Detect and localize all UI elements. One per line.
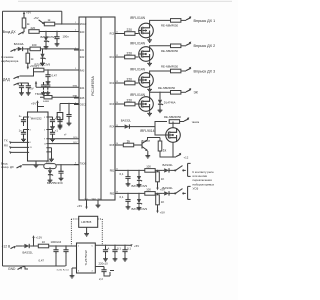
svg-text:T0CKI: T0CKI: [80, 163, 87, 165]
svg-text:1+: 1+: [19, 129, 23, 133]
svg-text:Впрыск ДХ 3: Впрыск ДХ 3: [194, 69, 216, 73]
ground ch4: [147, 111, 152, 116]
svg-text:BAS32L: BAS32L: [14, 42, 25, 46]
svg-text:15: 15: [116, 125, 118, 127]
+5V arrow input A: [156, 182, 165, 192]
svg-text:GND: GND: [8, 267, 16, 271]
resistor R 1k MCLR: [44, 18, 54, 26]
capacitor C out 0,1 a: [112, 246, 121, 261]
diode VD BAS32L: [121, 119, 132, 129]
capacitor C filter a: [19, 83, 24, 95]
svg-text:BZV55C3V9: BZV55C3V9: [132, 184, 148, 188]
svg-text:RX: RX: [4, 143, 8, 147]
svg-text:1K: 1K: [161, 177, 165, 181]
capacitor C4 charge pump: [48, 129, 58, 142]
resistor R 1k carb pullup: [26, 53, 34, 63]
svg-text:RE-N8MF050: RE-N8MF050: [161, 49, 179, 53]
svg-text:5: 5: [44, 129, 45, 131]
svg-text:RA4: RA4: [80, 87, 85, 90]
svg-text:BZV55C5V1: BZV55C5V1: [41, 35, 57, 39]
wire carb junction: [24, 48, 30, 50]
capacitor C supply 2: [45, 82, 50, 95]
resistor R 100 input A: [145, 165, 155, 173]
wire MAX232 to PIC rx tx: [48, 139, 79, 144]
wire carb to RA1: [28, 49, 79, 53]
svg-text:8: 8: [30, 142, 31, 144]
node carb text: [1, 55, 19, 63]
svg-text:11: 11: [116, 32, 118, 34]
scan artifact top line: [18, 0, 232, 2]
svg-text:IRFL014N: IRFL014N: [130, 41, 146, 45]
svg-text:RA2: RA2: [80, 56, 85, 59]
svg-text:ФКМ: ФКМ: [73, 85, 78, 88]
wire +5V output rail: [95, 245, 128, 248]
wire drain ch1: [135, 20, 170, 33]
ground reg: [70, 274, 75, 279]
svg-text:RB2: RB2: [110, 193, 115, 195]
svg-text:синхр. ДХ: синхр. ДХ: [1, 165, 14, 169]
resistor R gate ch3 220: [125, 77, 135, 84]
svg-text:RA3: RA3: [80, 69, 85, 72]
arrow rs232 a: [4, 138, 12, 144]
svg-text:Т6000: Т6000: [35, 92, 43, 96]
resistor R 220 hall: [29, 26, 39, 34]
zener VD BZV55C sync: [48, 169, 54, 183]
svg-text:100: 100: [146, 188, 151, 192]
svg-text:13: 13: [116, 81, 118, 83]
capacitor C 1000x16: [51, 240, 62, 266]
svg-text:220: 220: [31, 26, 36, 30]
transistor VT6 BC847: [134, 139, 151, 151]
svg-text:10: 10: [42, 240, 46, 244]
wire top route to MCLR: [3, 11, 62, 24]
wire diode to res: [31, 242, 39, 247]
svg-text:MCLR: MCLR: [80, 24, 87, 26]
resistor R gate ch2 220: [125, 51, 135, 59]
svg-text:RC2: RC2: [110, 83, 115, 85]
resistor R out ch2 NSMF050: [161, 44, 181, 53]
capacitor C5 vcc: [56, 117, 63, 129]
wire vcc MAX232: [38, 107, 45, 113]
ground ch1: [147, 38, 152, 43]
ground LM7805: [84, 227, 89, 236]
wire + arrow out ch1: [181, 16, 215, 23]
svg-text:0,1: 0,1: [127, 246, 131, 250]
wire left ground bus: [2, 11, 4, 266]
svg-text:+12: +12: [184, 155, 189, 159]
arrow reset input: [34, 16, 45, 25]
svg-text:220: 220: [127, 51, 133, 55]
zener VD BZV55C3V9 input B: [132, 197, 148, 211]
capacitor C osc: [64, 112, 72, 137]
svg-text:BAS32L: BAS32L: [163, 186, 174, 190]
capacitor C out 220x10: [99, 246, 110, 265]
svg-text:BAS32L: BAS32L: [121, 119, 132, 123]
wire rs232 lines out: [10, 142, 28, 152]
ground Vss stub: [96, 200, 101, 208]
wire sync to T0CKI: [50, 165, 79, 170]
svg-text:BAS32L: BAS32L: [23, 251, 34, 255]
svg-text:1K: 1K: [161, 200, 165, 204]
wire input B rail: [126, 193, 145, 197]
wire MAP to AN1: [20, 70, 80, 76]
wire dashed alt right: [98, 219, 103, 245]
svg-text:220: 220: [127, 77, 133, 81]
arrow MAP gnd: [14, 83, 20, 86]
wire collector to gate: [148, 138, 161, 142]
svg-text:ДАД: ДАД: [3, 78, 11, 82]
svg-text:RA5: RA5: [80, 97, 85, 100]
zener VD BZV55C5V1 hall: [41, 35, 57, 49]
capacitor C2 charge pump: [19, 129, 28, 142]
capacitor C 0,1 input A: [120, 172, 131, 186]
resistor R out ch4 NSMF050: [158, 86, 181, 94]
wire RA4 row: [36, 87, 79, 88]
zener VD BZV55C3V9 carb: [35, 52, 51, 66]
wire input B to diode: [155, 193, 162, 194]
svg-text:RC5: RC5: [110, 145, 115, 147]
svg-text:0,1: 0,1: [120, 172, 124, 176]
resistor R 100 carb: [30, 43, 40, 51]
svg-text:BZV55C3V9: BZV55C3V9: [132, 207, 148, 211]
wire + arrow out tach: [180, 117, 200, 124]
right pin stubs: [115, 34, 126, 194]
svg-text:TX: TX: [4, 138, 8, 142]
op-amp U1 PIC16F876A body: [79, 17, 115, 200]
svg-text:220х10: 220х10: [99, 262, 109, 266]
svg-text:+5V: +5V: [34, 16, 39, 20]
svg-text:100n: 100n: [63, 34, 70, 38]
wire res to reg: [49, 246, 77, 248]
+5V arrow carb: [27, 63, 35, 69]
svg-text:100: 100: [32, 43, 37, 47]
resistor R series RA5: [43, 96, 52, 104]
svg-text:16: 16: [116, 143, 118, 145]
ground MAX232: [34, 161, 39, 168]
svg-text:0,1: 0,1: [117, 246, 121, 250]
arrow hall input: [18, 31, 24, 34]
svg-text:RB1: RB1: [110, 170, 115, 172]
svg-text:+5V: +5V: [31, 102, 36, 106]
arrow rs232 c: [9, 151, 12, 154]
junction ch4: [159, 92, 160, 93]
svg-text:23: 23: [116, 192, 118, 194]
wire MCLR: [55, 23, 79, 25]
resistor R out tach NSMF050: [164, 115, 182, 123]
capacitor C filter b: [20, 83, 31, 95]
svg-text:1: 1: [30, 117, 31, 119]
node GND: [8, 267, 28, 271]
pin numbers right: [116, 32, 118, 194]
wire drain ch2: [135, 46, 170, 57]
transistor VT3 IRFL014N: [130, 67, 153, 87]
wire source to +12: [160, 142, 189, 159]
capacitor C 100n hall: [54, 34, 69, 46]
svg-text:BAS32L: BAS32L: [163, 163, 174, 167]
svg-text:14: 14: [116, 102, 118, 104]
svg-text:PIC16F876A: PIC16F876A: [91, 76, 95, 96]
wire + arrow out ch4: [181, 88, 198, 95]
capacitor C MAP: [45, 72, 57, 84]
svg-text:+5V: +5V: [134, 244, 139, 248]
transistor VT4 IRFL014N: [130, 93, 153, 111]
svg-text:1k: 1k: [163, 149, 167, 153]
resistor R gate ch1 220: [125, 28, 135, 36]
svg-text:220: 220: [127, 98, 133, 102]
svg-text:1k: 1k: [127, 139, 131, 143]
svg-text:RE-N8MF050: RE-N8MF050: [161, 24, 179, 28]
svg-text:х²: х²: [64, 133, 66, 137]
resistor R 1K pulldown input A: [156, 172, 165, 182]
svg-text:IRFL9014: IRFL9014: [140, 129, 155, 133]
arrow sync input: [17, 165, 23, 168]
svg-text:RC0: RC0: [110, 33, 115, 35]
wire hall to RA0: [39, 32, 79, 36]
capacitor C sync: [58, 168, 63, 180]
connector bracket input B: [188, 186, 191, 199]
capacitor C1 charge pump: [19, 114, 28, 126]
resistor R base 1k: [123, 139, 133, 147]
capacitor C T6000: [35, 82, 46, 96]
svg-text:DL4746A: DL4746A: [164, 100, 176, 104]
svg-text:OSC1: OSC1: [80, 105, 87, 107]
wire dashed alt left: [71, 219, 78, 246]
svg-text:12: 12: [44, 143, 46, 145]
svg-text:+12V: +12V: [36, 236, 43, 240]
connector bracket input A: [188, 163, 191, 176]
voltage regulator U4 LM7805 dashed alt: [79, 216, 98, 227]
svg-text:+1: +1: [55, 129, 59, 133]
svg-text:RC1: RC1: [110, 57, 115, 59]
svg-text:LM7805: LM7805: [81, 220, 92, 224]
arrow +12V input: [11, 246, 17, 249]
svg-text:2,2: 2,2: [99, 277, 103, 281]
capacitor C 0,47 psu: [39, 247, 69, 266]
svg-text:RA1: RA1: [80, 49, 85, 52]
svg-text:УОЗ: УОЗ: [193, 187, 199, 191]
wire drain ch3: [135, 71, 170, 83]
svg-text:RE-N8MF050: RE-N8MF050: [161, 65, 179, 69]
svg-text:RC3: RC3: [110, 104, 115, 106]
pin numbers left: [75, 22, 76, 165]
svg-text:+12 В: +12 В: [2, 245, 12, 249]
svg-text:0,47: 0,47: [52, 73, 58, 77]
pin labels left column: [80, 24, 87, 166]
wire Vdd stub: [77, 200, 88, 209]
svg-text:ФКМ: ФКМ: [73, 95, 78, 98]
zener VD BZV55C3V9 input A: [132, 174, 148, 188]
wire diode to gate rail: [123, 122, 173, 136]
voltage regulator U3 body: [77, 243, 96, 273]
op-amp U2 MAX232 body: [28, 112, 49, 161]
resistor R 100 input B: [145, 188, 155, 196]
svg-text:Впрыск ДХ 2: Впрыск ДХ 2: [194, 44, 216, 48]
note text block curves: [193, 170, 215, 191]
svg-text:12: 12: [116, 55, 118, 57]
transistor VT5 IRFL9014: [140, 128, 180, 143]
svg-text:BZV55C3V9: BZV55C3V9: [47, 181, 63, 185]
switch contact input B: [171, 189, 186, 194]
svg-text:ЭК: ЭК: [194, 91, 198, 95]
capacitor C feedback 2,2: [95, 267, 114, 282]
diode VD BAS32L carb: [14, 42, 25, 51]
wire reg gnd pin: [72, 268, 77, 274]
svg-text:IRFL014N: IRFL014N: [130, 16, 146, 20]
svg-text:IRFL014N: IRFL014N: [130, 93, 146, 97]
svg-text:IRFL014N: IRFL014N: [130, 67, 146, 71]
capacitor C 0,1 input B: [120, 195, 131, 209]
svg-text:1000х16: 1000х16: [51, 240, 62, 244]
svg-text:ТL2575CW: ТL2575CW: [84, 250, 88, 265]
svg-text:220: 220: [127, 28, 133, 32]
svg-text:RC4: RC4: [110, 127, 115, 129]
svg-text:4: 4: [30, 129, 31, 131]
svg-text:+5V: +5V: [160, 211, 165, 215]
wire sync: [22, 164, 44, 166]
transistor VT2 IRFL014N: [130, 41, 153, 61]
resistor R 1K pulldown input B: [156, 195, 165, 205]
svg-text:100: 100: [146, 165, 151, 169]
resistor R MAP: [34, 64, 44, 71]
+5V arrow sensor supply: [29, 81, 38, 91]
svg-text:тахом: тахом: [192, 120, 200, 124]
diode VD BAS32L input B: [163, 186, 174, 196]
svg-text:RE-N8MF050: RE-N8MF050: [158, 86, 176, 90]
wire + arrow out ch3: [181, 67, 215, 74]
zener VD DL4746A: [158, 98, 176, 113]
svg-text:RE-N8MF050: RE-N8MF050: [164, 115, 182, 119]
svg-text:4,7: 4,7: [35, 64, 39, 68]
svg-text:+5V: +5V: [26, 10, 31, 14]
node sync input text: [1, 162, 14, 170]
wire input A rail: [126, 170, 145, 174]
svg-text:RA0: RA0: [80, 31, 85, 34]
svg-text:0,47: 0,47: [39, 258, 45, 262]
capacitor C3 charge pump: [48, 116, 58, 129]
svg-text:3: 3: [44, 117, 45, 119]
arrow carb input: [11, 49, 17, 52]
arrow +12V rail: [32, 235, 42, 241]
svg-text:1+: 1+: [19, 114, 23, 118]
svg-text:13: 13: [30, 147, 32, 149]
svg-text:карбюратора: карбюратора: [1, 59, 19, 63]
diode VD BAS32L input A: [163, 163, 174, 173]
resistor R 200 sync: [44, 159, 56, 168]
svg-text:MAX232: MAX232: [31, 116, 42, 120]
wire input A to diode: [155, 170, 162, 171]
svg-text:9: 9: [44, 139, 45, 141]
svg-text:22: 22: [116, 169, 118, 171]
svg-text:А: А: [108, 246, 110, 250]
wire bottom ground rail: [3, 265, 66, 267]
+5V arrow input B: [156, 205, 165, 215]
svg-text:Впрыск ДХ 1: Впрыск ДХ 1: [194, 19, 216, 23]
wire pullup to hall node: [23, 28, 25, 32]
diode VD BAS32L psu: [23, 244, 34, 255]
ground emitter BC847: [145, 151, 150, 158]
wire + arrow out ch2: [181, 42, 215, 49]
svg-text:0,1: 0,1: [120, 195, 124, 199]
resistor R out ch1 NSMF050: [161, 19, 181, 28]
wire OSC1 to crystal: [60, 104, 79, 113]
ground ch3: [147, 87, 152, 92]
crystal ZQ1: [57, 113, 63, 128]
resistor R gate ch4 220: [125, 98, 135, 105]
pin labels right column: [110, 33, 115, 195]
svg-text:200: 200: [46, 159, 51, 163]
wire to diode: [16, 245, 23, 247]
+5V arrow MAX232: [31, 100, 39, 106]
arrow +5V out: [129, 244, 140, 248]
ground ch2: [147, 61, 152, 66]
arrow rs232 b: [4, 143, 12, 149]
resistor R pullup MCLR net: [22, 10, 31, 28]
wire RA5 row: [40, 96, 79, 98]
left pin stubs: [74, 24, 79, 165]
capacitor C out 0,1 b: [122, 246, 131, 261]
switch contact input A: [171, 166, 186, 171]
svg-text:3,4 В, R, 0,5: 3,4 В, R, 0,5: [57, 269, 70, 271]
resistor R 10 psu: [38, 240, 48, 248]
wire drain ch4: [135, 92, 170, 104]
svg-text:БФКМ: БФКМ: [43, 100, 49, 103]
resistor R gate pullup 1k: [158, 141, 166, 153]
svg-text:+5V: +5V: [29, 87, 34, 91]
arrow MAP signal: [14, 76, 20, 79]
resistor R out ch3 NSMF050: [161, 65, 181, 73]
svg-text:Вход ДХ: Вход ДХ: [3, 30, 17, 34]
svg-text:+5V: +5V: [77, 204, 82, 208]
transistor VT1 IRFL014N: [130, 16, 153, 38]
